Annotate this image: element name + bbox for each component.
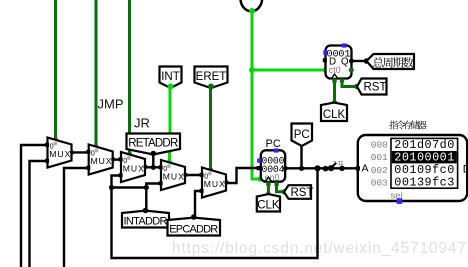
svg-text:MUX: MUX	[163, 172, 184, 182]
ROM highlighted row	[392, 151, 457, 163]
wire counter RST (dark green)	[342, 79, 358, 87]
wire PC CLK (dark green)	[267, 184, 270, 195]
wire MUX4 input B from INTADDR	[146, 184, 161, 211]
svg-text:EPCADDR: EPCADDR	[169, 223, 218, 235]
tunnel INTADDR	[122, 211, 169, 228]
wire MUX5 input B from EPCADDR	[195, 191, 202, 217]
svg-text:A: A	[362, 163, 369, 175]
svg-text:ERET: ERET	[196, 71, 227, 83]
wire counter Q to label	[352, 60, 368, 62]
wire MUX1 input A (from bottom feedback)	[21, 145, 48, 267]
svg-text:RETADDR: RETADDR	[128, 137, 178, 149]
mux M1	[48, 138, 72, 168]
svg-text:Q: Q	[341, 57, 349, 68]
svg-text:000: 000	[371, 140, 388, 151]
tunnel CLK near PC	[257, 194, 280, 211]
svg-text:MUX: MUX	[49, 149, 70, 159]
wire MUX2 out to MUX3	[113, 158, 121, 160]
svg-text:MUX: MUX	[123, 164, 144, 174]
pin (output probe, top, clipped)	[241, 0, 263, 11]
svg-text:RST: RST	[364, 82, 387, 94]
wire MUX4 out to MUX5	[185, 174, 202, 176]
svg-text:D: D	[463, 163, 468, 175]
tunnel CLK near counter	[321, 103, 347, 121]
svg-text:PC: PC	[266, 138, 281, 150]
ROM instruction memory	[358, 135, 467, 201]
tunnel ERET	[195, 67, 228, 89]
svg-text:002: 002	[371, 165, 388, 176]
wire branch to MUX4 input B / INTADDR	[112, 186, 147, 188]
node junction bright green	[249, 67, 255, 73]
counter ct0	[326, 46, 352, 79]
wire PC tunnel drop	[300, 144, 302, 168]
tunnel 总周期数	[367, 54, 415, 69]
tunnel RETADDR	[127, 134, 181, 155]
register PC clock triangle	[265, 177, 271, 181]
tunnel RST near counter	[357, 79, 387, 95]
wire MUX2 input B	[64, 168, 89, 267]
counter pins	[342, 43, 347, 47]
svg-text:CLK: CLK	[323, 109, 346, 121]
tunnel PC	[292, 124, 313, 147]
wire MUX5 out to PC register D	[226, 168, 260, 183]
svg-text:https://blog.csdn.net/weixin_4: https://blog.csdn.net/weixin_45710947	[172, 240, 466, 257]
wire ERET select (dark green) into MUX5	[209, 86, 212, 168]
node junction	[109, 185, 114, 190]
svg-text:MUX: MUX	[91, 156, 112, 166]
wire RETADDR drop to MUX3 out net	[152, 152, 154, 167]
wire INT select (bright green) into MUX4, behind RETADDR	[169, 86, 172, 150]
ROM data box	[391, 138, 458, 188]
tunnel EPCADDR	[168, 218, 221, 236]
mux M2	[89, 145, 113, 175]
ROM 指令存储器 title	[389, 121, 398, 130]
wire counter CLK (dark green)	[333, 79, 336, 103]
node junctions on PC bus	[299, 166, 304, 171]
counter clock triangle	[332, 74, 338, 78]
wire JR net (dark green vertical)	[128, 0, 131, 155]
wire PC feedback: MUX3 input B, bottom loop from PC bus	[112, 168, 318, 258]
ROM A pin	[356, 166, 360, 170]
register PC pins	[274, 148, 279, 152]
svg-text:00139fc3: 00139fc3	[394, 176, 454, 190]
svg-text:2-11: 2-11	[333, 161, 343, 167]
register PC	[261, 150, 285, 181]
node PC D input pin	[257, 166, 261, 170]
wire MUX1 input B	[30, 161, 48, 267]
svg-text:INT: INT	[161, 71, 180, 83]
svg-text:RST: RST	[291, 187, 314, 199]
tunnel INT	[160, 67, 182, 89]
tunnel RST near PC	[284, 185, 311, 199]
wire bright green net from pin	[252, 11, 261, 180]
svg-text:JMP: JMP	[98, 97, 124, 112]
svg-text:MUX: MUX	[204, 179, 225, 189]
wire PC register Q output bus	[285, 167, 358, 169]
wire MUX1 out to MUX2	[72, 151, 89, 153]
wire JMP net (dark green vertical)	[95, 0, 98, 147]
svg-text:001: 001	[371, 152, 388, 163]
wire PC RST (dark green)	[277, 184, 286, 192]
splitter 2-11	[331, 163, 336, 168]
wire MUX3 out to MUX4	[145, 166, 161, 168]
svg-text:JR: JR	[134, 116, 150, 131]
svg-text:PC: PC	[294, 129, 310, 141]
svg-text:003: 003	[371, 178, 388, 189]
svg-text:INTADDR: INTADDR	[124, 215, 168, 227]
wire select stub into M4	[168, 150, 171, 163]
svg-text:CLK: CLK	[257, 199, 280, 211]
wire select stub into M5	[209, 88, 212, 171]
wire select net 1 (dark green vertical)	[54, 0, 57, 140]
node junction RETADDR	[151, 165, 156, 170]
mux M5	[202, 168, 226, 198]
mux M4	[161, 160, 185, 190]
mux M3	[121, 152, 145, 182]
